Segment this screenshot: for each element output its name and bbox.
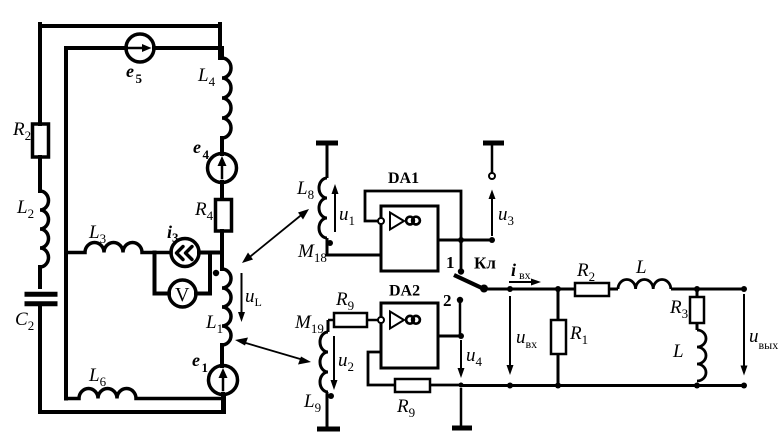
svg-text:L: L [672, 341, 684, 362]
svg-text:L3: L3 [88, 222, 106, 246]
coupling arrow M18 [242, 209, 309, 263]
node R1 bottom [555, 383, 561, 389]
node output bottom [741, 383, 747, 389]
u3 terminal circle [489, 173, 495, 179]
resistor R2 [575, 283, 609, 296]
resistor R9 feedback [395, 379, 430, 392]
terminal bar bottom-right [452, 426, 472, 431]
node L bottom [694, 383, 700, 389]
label inf DA1 [406, 217, 420, 225]
svg-text:i: i [511, 260, 516, 280]
dot contact 2 [457, 297, 463, 303]
inductor L9 [320, 332, 328, 392]
inductor L2 [40, 191, 49, 267]
svg-text:u4: u4 [466, 345, 483, 369]
source e4 [208, 154, 237, 183]
node R1 top [555, 286, 561, 292]
inductor L [618, 279, 671, 289]
wire [220, 345, 224, 366]
svg-text:L6: L6 [88, 365, 107, 389]
u2 arrow [333, 336, 335, 383]
wire L9 to bar [326, 392, 329, 427]
op-amp DA2 box [381, 303, 438, 368]
uvyx arrow [743, 294, 745, 367]
svg-text:uвх: uвх [516, 327, 537, 351]
wire [220, 231, 224, 269]
svg-text:u3: u3 [498, 204, 514, 228]
DA1 input circle [378, 218, 384, 224]
terminal bar top-right [483, 141, 504, 146]
svg-text:M19: M19 [294, 312, 324, 336]
node R3 top [694, 286, 700, 292]
ivx arrow [509, 281, 534, 283]
svg-text:DA2: DA2 [389, 283, 420, 300]
DA1 output wire [438, 239, 492, 242]
u3 arrowhead [489, 190, 496, 200]
resistor R2 [33, 124, 49, 157]
terminal bar bottom-left [317, 427, 340, 432]
wire outer top [40, 24, 220, 28]
voltage arrow uL [241, 273, 243, 314]
svg-text:вх: вх [519, 268, 531, 282]
svg-text:L: L [635, 257, 647, 278]
source e5 [126, 34, 154, 62]
inductor L3 [66, 243, 171, 253]
op-amp DA1 box [381, 206, 438, 271]
wire M18 to DA1 [327, 238, 381, 255]
terminal bar top-left [316, 141, 338, 146]
svg-text:e4: e4 [193, 137, 210, 162]
DA2 triangle [390, 312, 404, 329]
wire contact2 down [459, 303, 462, 336]
svg-text:R4: R4 [194, 199, 214, 223]
svg-text:L4: L4 [197, 65, 216, 89]
svg-text:R2: R2 [12, 119, 31, 143]
wire [220, 182, 224, 199]
dot L9 bottom [328, 393, 334, 399]
wire i3 to main [199, 251, 222, 255]
inductor L9 wire [327, 320, 330, 332]
DA2 feedback lower [368, 352, 395, 385]
dot DA2 out node [458, 333, 464, 339]
uvyx arrowhead [741, 366, 748, 376]
resistor R4 [216, 200, 232, 232]
node output top [741, 286, 747, 292]
svg-text:DA1: DA1 [388, 170, 419, 187]
wire [221, 394, 225, 412]
wire [220, 138, 224, 154]
wire to top bar [491, 145, 494, 173]
svg-text:L1: L1 [205, 312, 223, 336]
node uvx top [507, 286, 513, 292]
svg-text:R1: R1 [569, 323, 588, 347]
DA1 feedback [365, 191, 461, 271]
wire R9 to node [430, 384, 461, 387]
svg-text:V: V [175, 284, 190, 306]
wire R3 [696, 289, 699, 330]
wire inner top [66, 46, 222, 50]
wire node down to bar [460, 388, 463, 426]
svg-text:L2: L2 [16, 197, 34, 221]
node uvx bottom [507, 383, 513, 389]
switch lever [454, 275, 484, 289]
inductor L vert [697, 330, 706, 381]
inductor L6 [66, 389, 223, 399]
wire [326, 145, 329, 178]
svg-text:u1: u1 [339, 204, 355, 228]
wire bottom rail [461, 384, 744, 387]
wire outer bottom-left [38, 306, 42, 412]
svg-text:uвых: uвых [749, 326, 778, 352]
wire inner left [64, 48, 68, 399]
svg-text:e5: e5 [126, 61, 143, 86]
wire [38, 157, 42, 191]
label inf DA2 [406, 316, 420, 324]
capacitor C2 [27, 294, 55, 304]
svg-text:2: 2 [443, 291, 452, 310]
svg-text:M18: M18 [297, 241, 327, 265]
uvx arrow [509, 296, 511, 368]
svg-text:L9: L9 [303, 391, 321, 415]
inductor L4 [222, 58, 231, 138]
svg-text:C2: C2 [15, 309, 34, 333]
svg-text:Кл: Кл [474, 254, 496, 273]
wire R1 [557, 289, 560, 386]
DA1 triangle [390, 213, 404, 230]
svg-text:1: 1 [446, 253, 455, 272]
wire outer bottom [40, 395, 224, 412]
wire [38, 267, 42, 287]
uvx arrowhead [507, 365, 514, 375]
resistor R3 [690, 297, 704, 323]
DA2 output wire [438, 335, 461, 338]
svg-text:R3: R3 [669, 297, 688, 321]
svg-text:i3: i3 [167, 222, 179, 245]
DA2 input circle [378, 317, 384, 323]
dot DA1 fb node [458, 237, 464, 243]
resistor R1 [551, 320, 566, 354]
wire outer left [38, 24, 42, 124]
dot DA1 out node [489, 237, 495, 243]
inductor L8 [319, 178, 327, 238]
dot switch pivot [480, 285, 488, 293]
wire top rail [484, 288, 744, 291]
u1 arrow [334, 190, 336, 232]
u3 arrow line [491, 198, 493, 236]
inductor L1 [222, 269, 231, 345]
u4 arrowhead [458, 368, 465, 378]
voltmeter V [169, 280, 196, 307]
svg-text:e1: e1 [192, 350, 208, 375]
svg-text:R9: R9 [335, 289, 354, 313]
dot R9 node [459, 383, 464, 388]
dot contact 1 [458, 268, 464, 274]
dot L8 bottom [327, 240, 333, 246]
svg-text:R9: R9 [396, 396, 415, 420]
svg-text:R2: R2 [576, 260, 595, 284]
wire right branch top [220, 24, 222, 58]
svg-text:L8: L8 [296, 178, 314, 202]
node dot L1 top [213, 270, 219, 276]
svg-text:u2: u2 [338, 350, 354, 374]
coupling arrow M19 [235, 338, 311, 365]
wire V branch [155, 253, 211, 294]
u4 arrow line [460, 340, 462, 373]
source i3 [171, 239, 199, 267]
source e1 [209, 366, 238, 395]
svg-text:uL: uL [245, 286, 262, 309]
ivx arrowhead [531, 279, 541, 286]
resistor R9 input [328, 319, 334, 322]
